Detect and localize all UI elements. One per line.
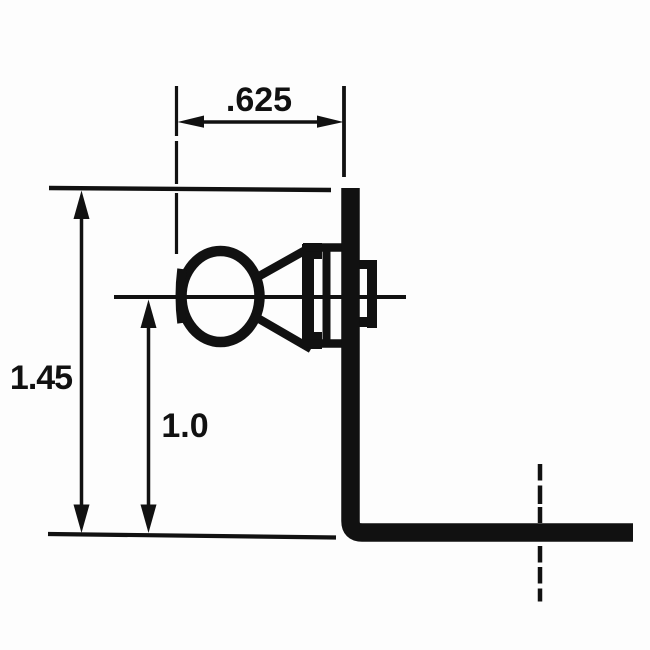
ball flattened left edge: [180, 269, 182, 323]
bottom extension line (bottom of bracket): [48, 534, 336, 538]
svg-text:.625: .625: [226, 81, 292, 119]
stud taper bottom edge: [254, 316, 311, 349]
stud flange bottom edge: [306, 339, 343, 348]
dimension line 1.45 bottom arrowhead: [74, 505, 90, 534]
stud flange left edge: [302, 244, 314, 348]
retaining nut right edge: [367, 260, 377, 328]
L-bracket: [351, 188, 634, 533]
retaining nut top edge: [350, 260, 376, 269]
svg-text:1.45: 1.45: [10, 359, 72, 397]
extension line left of .625 (dashed): [175, 86, 178, 254]
stud flange top edge: [306, 243, 343, 252]
dimension line 1.0 bottom arrowhead: [141, 505, 157, 534]
ball of stud: [182, 251, 260, 342]
retaining nut bottom edge: [350, 317, 376, 327]
stud taper/flange bottom junction: [303, 332, 322, 349]
dimension line 1.0 top arrowhead: [141, 300, 157, 329]
stud flange middle line: [323, 248, 331, 343]
dimension arrow .625 right arrowhead: [317, 116, 344, 128]
dashed hole centerline on bracket flange: [538, 464, 543, 602]
dimension line 1.45 shaft: [80, 210, 84, 512]
stud taper top edge: [254, 247, 311, 279]
dimension arrow .625 shaft: [192, 120, 330, 124]
dimension arrow .625 left arrowhead: [178, 116, 205, 128]
top extension line (top of bracket): [49, 188, 331, 190]
svg-text:1.0: 1.0: [161, 407, 208, 445]
centerline through ball stud: [114, 295, 406, 299]
stud taper/flange top junction: [303, 243, 322, 259]
extension line right of .625: [342, 86, 346, 177]
dimension line 1.45 top arrowhead: [74, 191, 90, 220]
dimension line 1.0 shaft: [147, 318, 151, 512]
